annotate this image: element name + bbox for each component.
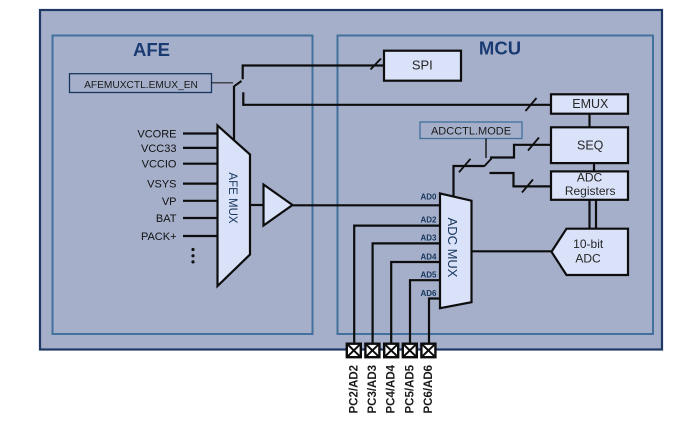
mux ADC MUX [440,193,472,308]
wire AD3 [373,243,440,343]
wire VCORE [183,132,218,134]
pin PC5/AD5 [403,344,417,414]
wire BAT [183,217,218,219]
wire VP [183,200,218,202]
control wire ADCCTL.MODE [485,139,487,159]
wire to SEQ [490,145,551,158]
wire AD5 [410,280,440,343]
bus slash SEQ [528,138,539,151]
wire PACK+ [183,235,218,237]
block EMUX [551,94,628,113]
pin PC6/AD6 [421,344,435,414]
svg-text:VCCIO: VCCIO [142,159,177,171]
wire VCC33 [183,147,218,149]
wire VCCIO [183,163,218,165]
svg-text:ADC MUX: ADC MUX [445,218,460,278]
bus slash EMUX [526,98,537,111]
svg-text:PC4/AD4: PC4/AD4 [386,364,398,413]
svg-text:VCORE: VCORE [137,129,176,141]
svg-text:BAT: BAT [156,213,177,225]
pin PC4/AD4 [384,344,398,414]
svg-text:SPI: SPI [412,57,433,72]
MCU block box [338,36,654,335]
svg-text:AD0: AD0 [420,192,437,201]
block ADC Registers [551,171,628,200]
svg-text:AFE: AFE [133,39,170,60]
wire ADC MUX output [472,250,552,252]
switch blade EMUX_EN [234,81,242,86]
pin PC3/AD3 [365,344,379,414]
wire SEQ-ADC Registers [593,163,595,171]
buffer amplifier [250,185,293,226]
control wire EMUX_EN [212,82,234,84]
register field ADCCTL.MODE [420,122,522,139]
wire to EMUX [243,92,551,105]
wire to ADC Registers [490,173,552,186]
svg-text:PACK+: PACK+ [141,231,177,243]
block SPI [384,51,461,81]
svg-text:Registers: Registers [565,184,616,198]
svg-text:PC6/AD6: PC6/AD6 [423,365,435,414]
bus slash ADC MUX select [459,159,471,173]
svg-text:SEQ: SEQ [577,139,604,153]
bus slash SPI [371,59,382,70]
system box [40,10,662,350]
wire ADC MUX select [454,166,485,197]
svg-text:AFE MUX: AFE MUX [226,172,238,223]
wire AD2 [354,226,440,344]
mux AFE MUX [218,126,251,287]
svg-text:ADCCTL.MODE: ADCCTL.MODE [431,126,511,138]
svg-text:10-bit: 10-bit [573,237,604,251]
wire VSYS [183,183,218,185]
svg-text:VP: VP [162,196,177,208]
svg-text:PC5/AD5: PC5/AD5 [404,364,416,413]
wire EMUX-SEQ [588,114,590,128]
wire AD6 [429,299,440,344]
svg-text:AD4: AD4 [420,252,437,261]
bus slash ADC Registers [522,180,533,193]
svg-text:AFEMUXCTL.EMUX_EN: AFEMUXCTL.EMUX_EN [84,80,198,91]
svg-text:AD6: AD6 [420,289,437,298]
svg-text:ADC: ADC [577,171,603,185]
svg-text:VCC33: VCC33 [141,143,176,155]
switch blade MODE [484,159,492,167]
svg-text:AD2: AD2 [420,215,437,224]
AFE block box [53,36,313,335]
svg-text:AD3: AD3 [420,234,437,243]
wire AD0 [293,204,441,206]
svg-text:MCU: MCU [479,38,521,59]
block SEQ [551,127,628,163]
block 10-bit ADC [552,229,629,275]
svg-text:ADC: ADC [575,252,601,266]
wire AFE MUX select (vertical) [233,86,235,141]
wire ADC Registers-ADC (double) [590,200,597,229]
svg-text:PC3/AD3: PC3/AD3 [367,365,379,414]
svg-text:VSYS: VSYS [147,179,176,191]
svg-text:AD5: AD5 [420,271,437,280]
svg-text:EMUX: EMUX [572,97,609,111]
register field AFEMUXCTL.EMUX_EN [70,74,212,93]
ellipsis dots [191,248,194,264]
svg-text:PC2/AD2: PC2/AD2 [348,365,360,414]
wire AD4 [391,262,440,344]
pin PC2/AD2 [347,344,361,414]
wire to SPI [243,66,384,80]
